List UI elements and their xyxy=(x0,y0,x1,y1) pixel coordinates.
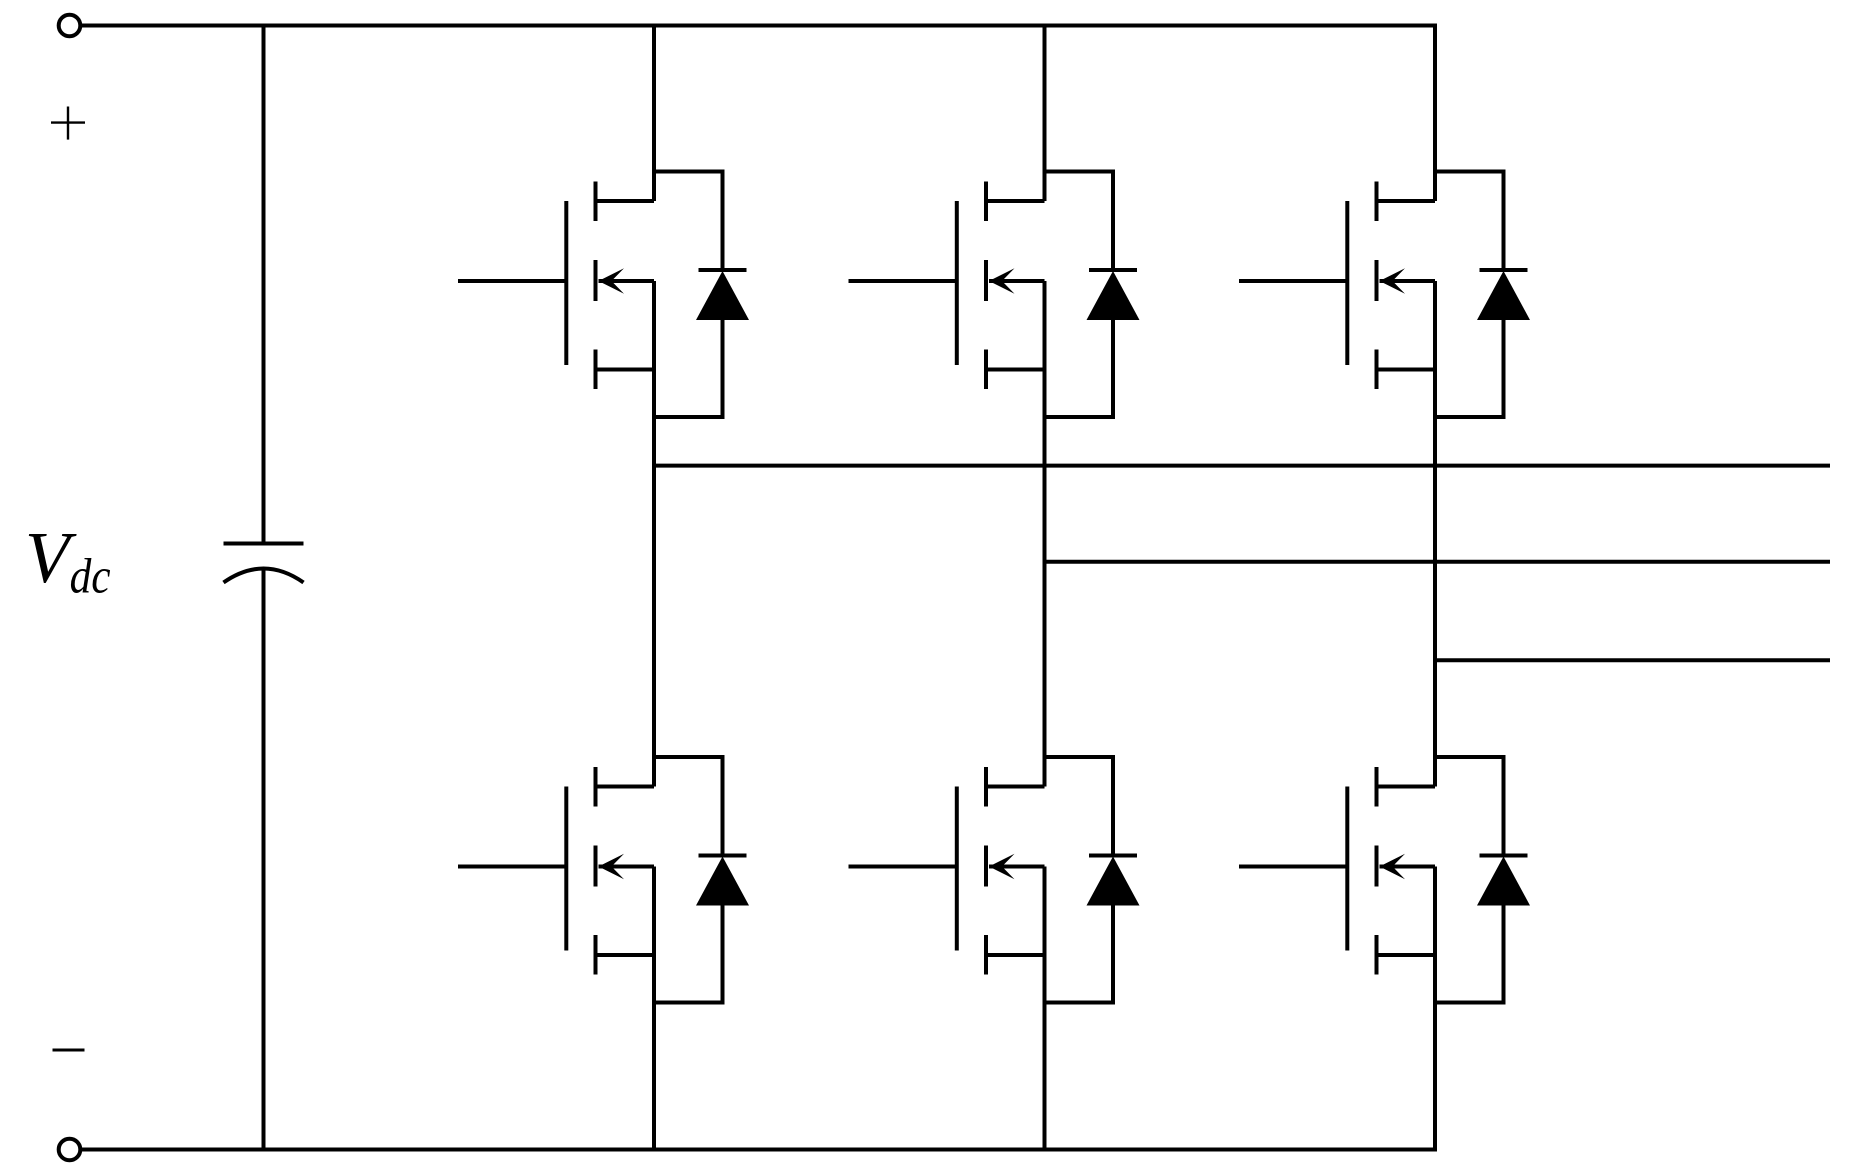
transistor Q3 high-side MOSFET symbol xyxy=(957,182,1045,390)
diode D5 body diode xyxy=(1435,172,1530,418)
transistor Q6 low-side gate lead wire xyxy=(1239,865,1347,869)
minus sign label xyxy=(53,1049,85,1052)
transistor Q5 high-side gate lead wire xyxy=(1239,279,1347,283)
negative input terminal xyxy=(59,1139,81,1161)
wire: +bus to Q5 drain (leg 3) xyxy=(1433,26,1437,202)
wire: Q5 source to Q6 drain through phase node C xyxy=(1433,370,1437,787)
wire: phase A output xyxy=(654,464,1830,468)
transistor Q2 low-side MOSFET symbol xyxy=(566,767,654,975)
diode D1 body diode xyxy=(654,172,749,418)
wire: Q4 source to -bus (leg 2) xyxy=(1043,955,1047,1150)
diode D6 body diode xyxy=(1435,757,1530,1003)
svg-text:Vdc: Vdc xyxy=(25,517,111,604)
capacitor C1 DC-link xyxy=(224,26,304,1150)
wire: bottom DC bus (-) xyxy=(82,1148,1437,1152)
wire: Q2 source to -bus (leg 1) xyxy=(652,955,656,1150)
wire: top DC bus (+) xyxy=(82,24,1437,28)
wire: Q1 source to Q2 drain through phase node A xyxy=(652,370,656,787)
transistor Q5 high-side MOSFET symbol xyxy=(1347,182,1435,390)
transistor Q1 high-side MOSFET symbol xyxy=(566,182,654,390)
positive input terminal xyxy=(59,15,81,37)
diode D3 body diode xyxy=(1045,172,1140,418)
wire: +bus to Q3 drain (leg 2) xyxy=(1043,26,1047,202)
transistor Q6 low-side MOSFET symbol xyxy=(1347,767,1435,975)
transistor Q2 low-side gate lead wire xyxy=(458,865,566,869)
transistor Q4 low-side gate lead wire xyxy=(849,865,957,869)
plus sign label xyxy=(51,107,85,140)
wire: +bus to Q1 drain (leg 1) xyxy=(652,26,656,202)
diode D4 body diode xyxy=(1045,757,1140,1003)
wire: Q6 source to -bus (leg 3) xyxy=(1433,955,1437,1150)
transistor Q3 high-side gate lead wire xyxy=(849,279,957,283)
transistor Q4 low-side MOSFET symbol xyxy=(957,767,1045,975)
transistor Q1 high-side gate lead wire xyxy=(458,279,566,283)
wire: phase B output xyxy=(1045,560,1831,564)
wire: phase C output xyxy=(1435,658,1830,662)
wire: Q3 source to Q4 drain through phase node B xyxy=(1043,370,1047,787)
diode D2 body diode xyxy=(654,757,749,1003)
